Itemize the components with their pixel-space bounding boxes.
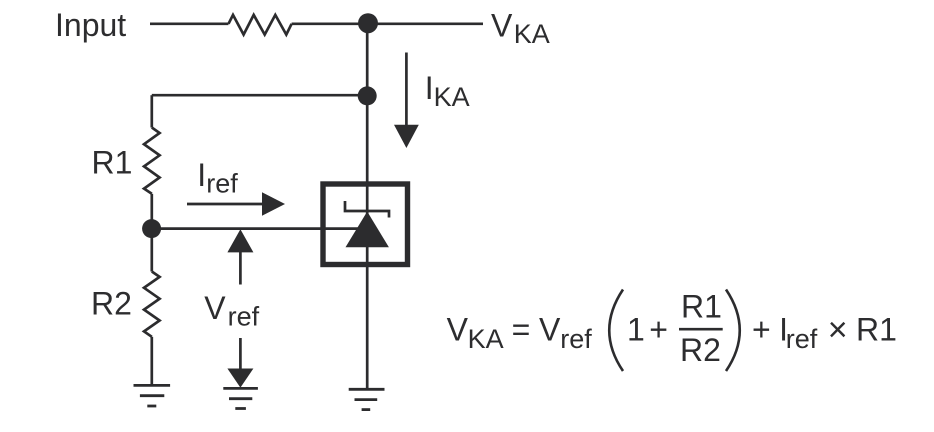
wire resistor to VKA	[292, 22, 483, 25]
svg-text:ref: ref	[206, 168, 238, 198]
resistor (input series)	[229, 15, 292, 35]
voltage label Vref	[204, 290, 259, 332]
svg-text:ref: ref	[560, 324, 592, 354]
wire R2 to ground	[150, 337, 153, 385]
node junction top	[358, 13, 378, 33]
Vref arrowhead up	[227, 229, 253, 252]
wire Vref arrow lower line	[239, 338, 242, 369]
wire R1 to node A	[150, 194, 153, 229]
svg-text:=: =	[512, 312, 531, 348]
op-amp U1 TL431 box	[323, 184, 408, 265]
TL431 cathode bar	[345, 201, 389, 218]
wire Iref arrow line	[187, 203, 264, 206]
svg-text:ref: ref	[786, 324, 818, 354]
wire IKA arrow line	[405, 53, 408, 127]
svg-text:R1: R1	[92, 144, 133, 180]
svg-text:KA: KA	[434, 82, 470, 112]
Vref arrowhead down	[227, 369, 253, 388]
ground Vref	[223, 388, 258, 408]
svg-text:I: I	[425, 70, 434, 106]
ground TL431	[349, 389, 385, 409]
svg-text:ref: ref	[228, 301, 260, 331]
wire cathode vertical	[366, 24, 369, 389]
svg-text:R2: R2	[680, 332, 721, 368]
svg-text:R1: R1	[681, 288, 722, 324]
svg-text:KA: KA	[514, 19, 550, 49]
IKA arrowhead	[394, 125, 419, 148]
Iref arrowhead	[262, 192, 285, 215]
svg-text:V: V	[204, 290, 226, 326]
svg-text:R2: R2	[91, 286, 132, 322]
ground R2	[134, 385, 171, 406]
svg-text:×: ×	[828, 311, 848, 349]
current label IKA	[425, 70, 470, 112]
svg-text:Input: Input	[55, 7, 126, 43]
net label VKA	[491, 7, 550, 49]
node A junction	[142, 219, 161, 238]
wire input to resistor	[150, 22, 229, 25]
svg-text:1: 1	[627, 312, 645, 348]
svg-text:R1: R1	[856, 312, 897, 348]
svg-text:V: V	[539, 312, 561, 348]
equation VKA formula	[447, 288, 897, 371]
TL431 anode triangle	[346, 212, 389, 248]
current label Iref	[197, 157, 238, 199]
wire Vref arrow upper line	[239, 252, 242, 285]
wire node A to R2	[150, 229, 153, 272]
wire ref horizontal	[152, 227, 358, 230]
resistor R2	[144, 272, 160, 337]
svg-text:+: +	[649, 312, 668, 348]
svg-text:+: +	[752, 312, 771, 348]
resistor R1	[144, 128, 160, 194]
svg-text:V: V	[491, 7, 513, 43]
node junction feedback	[358, 86, 377, 105]
svg-text:KA: KA	[468, 324, 504, 354]
svg-text:V: V	[447, 312, 469, 348]
wire feedback top horizontal	[152, 94, 367, 97]
svg-text:I: I	[197, 157, 206, 193]
wire node to R1	[150, 95, 153, 127]
